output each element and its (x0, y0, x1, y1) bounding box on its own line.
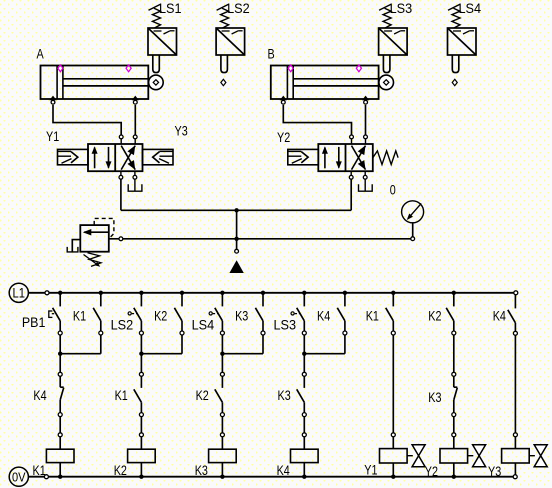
svg-text:Y2: Y2 (425, 463, 438, 479)
svg-text:K4: K4 (317, 307, 330, 323)
svg-text:A: A (37, 46, 45, 62)
svg-text:LS4: LS4 (459, 0, 482, 16)
svg-text:LS2: LS2 (111, 317, 134, 333)
svg-text:K4: K4 (33, 387, 46, 403)
svg-text:K4: K4 (493, 307, 506, 323)
svg-text:0: 0 (390, 181, 396, 197)
svg-text:K1: K1 (73, 307, 86, 323)
svg-text:0V: 0V (12, 469, 26, 484)
svg-text:LS3: LS3 (274, 317, 297, 333)
svg-text:K3: K3 (235, 307, 248, 323)
svg-text:Y3: Y3 (175, 123, 188, 139)
svg-text:K2: K2 (196, 387, 209, 403)
svg-text:LS3: LS3 (390, 0, 413, 16)
svg-text:B: B (268, 46, 275, 62)
svg-text:LS4: LS4 (192, 317, 215, 333)
svg-text:K2: K2 (154, 307, 167, 323)
svg-text:K4: K4 (277, 462, 290, 478)
svg-text:K2: K2 (114, 462, 127, 478)
svg-text:K1: K1 (115, 387, 128, 403)
svg-text:K1: K1 (33, 462, 46, 478)
svg-text:K3: K3 (195, 462, 208, 478)
svg-text:Y2: Y2 (277, 129, 290, 145)
svg-text:LS1: LS1 (159, 0, 182, 16)
svg-text:Y1: Y1 (46, 128, 59, 144)
svg-text:K1: K1 (366, 307, 379, 323)
svg-text:Y3: Y3 (488, 463, 501, 479)
svg-text:Y1: Y1 (364, 462, 377, 478)
svg-text:K3: K3 (278, 387, 291, 403)
svg-text:K2: K2 (428, 307, 441, 323)
svg-text:K3: K3 (428, 389, 441, 405)
svg-text:L1: L1 (13, 285, 26, 300)
svg-text:PB1: PB1 (22, 314, 46, 330)
svg-text:LS2: LS2 (227, 0, 250, 16)
